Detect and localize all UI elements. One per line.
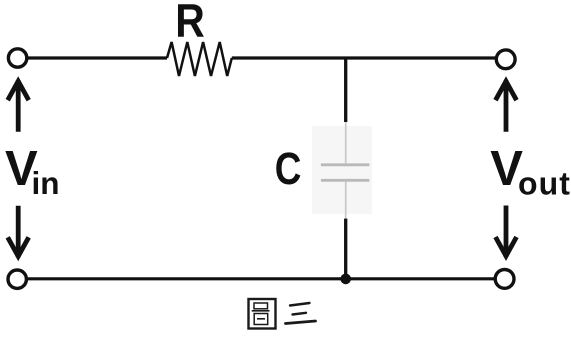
- figure caption 三 (drawn strokes): [286, 303, 316, 324]
- figure caption 圖 (drawn strokes): [249, 299, 276, 329]
- Vin up arrow: [8, 80, 29, 132]
- wire bottom segment: [27, 277, 495, 280]
- resistor R zigzag: [167, 42, 232, 76]
- wire top-left segment (Vin+ to resistor): [26, 56, 167, 59]
- svg-text:C: C: [275, 143, 302, 194]
- junction dot at bottom node: [340, 274, 351, 285]
- node Vin+ open terminal: [8, 49, 26, 67]
- svg-text:in: in: [32, 165, 60, 201]
- wire vertical (top node to capacitor): [344, 58, 347, 122]
- wire top-right segment (resistor to Vout+): [232, 56, 496, 59]
- Vout up arrow: [496, 80, 517, 132]
- node Vout+ open terminal: [496, 50, 515, 69]
- Vin down arrow: [8, 206, 29, 258]
- node Vout- open terminal: [495, 270, 514, 289]
- capacitor C plates and leads (gray): [312, 122, 372, 219]
- Vin label: [5, 142, 60, 201]
- node Vin- open terminal: [8, 270, 26, 288]
- Vout label: [490, 142, 571, 201]
- svg-text:out: out: [518, 166, 571, 202]
- svg-text:R: R: [175, 0, 205, 48]
- Vout down arrow: [496, 206, 517, 258]
- wire vertical (capacitor to bottom node): [344, 219, 347, 279]
